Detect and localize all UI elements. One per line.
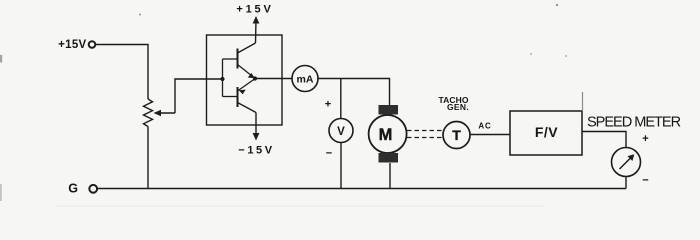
- svg-text:+: +: [642, 133, 648, 145]
- svg-text:GEN.: GEN.: [447, 102, 469, 112]
- wire voltmeter branch top: [340, 79, 342, 119]
- voltmeter minus label: [326, 148, 332, 160]
- wire F/V converter to speed meter: [582, 132, 626, 148]
- node +15V supply label: [58, 39, 86, 51]
- scan speck mid right a: [530, 53, 532, 55]
- scan smudge left edge upper: [0, 55, 2, 63]
- svg-text:−: −: [642, 175, 648, 187]
- terminal +15V: [89, 41, 96, 48]
- speed meter minus label: [642, 175, 648, 187]
- speed meter plus label: [642, 133, 648, 145]
- wire ground bus: [98, 188, 627, 190]
- speed meter movement: [612, 148, 641, 177]
- F/V converter U1: [510, 111, 582, 155]
- potentiometer VR1: [144, 99, 153, 127]
- node input junction: [220, 77, 224, 81]
- wire from +15V terminal to potentiometer top: [96, 45, 148, 100]
- svg-text:T: T: [452, 127, 461, 143]
- wire mA meter to motor top: [318, 79, 390, 106]
- wire tacho to F/V converter: [471, 134, 511, 136]
- svg-text:−15V: −15V: [238, 145, 274, 157]
- svg-text:F/V: F/V: [535, 124, 558, 140]
- svg-text:SPEED METER: SPEED METER: [587, 115, 681, 131]
- svg-text:AC: AC: [478, 122, 491, 131]
- motor M: [369, 115, 407, 153]
- wire speed meter to ground bus: [625, 177, 627, 189]
- wire motor bottom to ground bus: [389, 163, 391, 189]
- wire emitter junction to mA meter: [255, 78, 292, 80]
- node G label: [68, 181, 78, 195]
- svg-text:+: +: [325, 99, 331, 111]
- tacho generator label: [438, 95, 469, 112]
- transistor Q2 (PNP): [223, 79, 257, 113]
- scan speck mid right b: [565, 55, 567, 57]
- scan speck upper left: [139, 14, 141, 16]
- motor bottom brush: [379, 153, 399, 163]
- voltmeter V: [329, 119, 353, 143]
- svg-text:G: G: [68, 181, 78, 195]
- node SPEED METER label: [587, 115, 681, 131]
- svg-text:mA: mA: [297, 74, 314, 86]
- ammeter mA: [292, 66, 318, 92]
- wire voltmeter to ground bus: [340, 143, 342, 189]
- scan speck upper right: [556, 4, 558, 6]
- potentiometer wiper arrow: [154, 110, 176, 116]
- wire base bus: [222, 59, 224, 97]
- svg-text:V: V: [337, 126, 345, 138]
- wire collector Q1 to +15V arrow: [253, 16, 260, 43]
- wire collector Q2 to -15V arrow: [253, 113, 260, 141]
- motor top brush: [379, 105, 399, 115]
- node emitter junction: [253, 76, 257, 80]
- wire wiper to amplifier input: [175, 79, 223, 113]
- node AC label: [478, 122, 491, 131]
- scan streak bottom: [55, 205, 545, 207]
- stray scan line above F/V box: [582, 92, 584, 111]
- voltmeter plus label: [325, 99, 331, 111]
- transistor Q1 (NPN): [223, 43, 256, 78]
- scan smudge left edge lower: [0, 184, 2, 201]
- amplifier box: [207, 35, 283, 125]
- svg-text:+15V: +15V: [58, 39, 86, 51]
- tacho generator T: [443, 122, 470, 149]
- svg-text:+15V: +15V: [236, 4, 273, 16]
- svg-text:−: −: [326, 148, 332, 160]
- node +15V rail label: [236, 4, 273, 16]
- mechanical coupling (dashed shaft): [407, 131, 443, 138]
- svg-text:M: M: [379, 126, 393, 144]
- terminal G: [89, 185, 97, 193]
- node -15V rail label: [238, 145, 274, 157]
- wire potentiometer bottom to ground bus: [147, 127, 149, 189]
